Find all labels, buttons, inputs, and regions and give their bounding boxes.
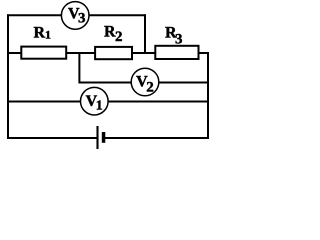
wire left frame [7, 14, 9, 139]
wire bottom frame left of battery [7, 137, 97, 139]
battery cell: long plate [96, 126, 98, 149]
wire main series line [7, 52, 209, 54]
battery cell: short thick plate [102, 132, 106, 143]
wire V2 to right frame [157, 82, 209, 84]
resistor R2 [95, 24, 132, 60]
resistor R3 [155, 25, 198, 59]
wire node R1-R2 down and across to V2 [79, 53, 133, 83]
voltmeter V3 [61, 2, 89, 30]
wire V1 line [7, 101, 209, 103]
svg-text:3: 3 [78, 11, 86, 27]
svg-text:1: 1 [45, 28, 51, 42]
wire top frame [7, 14, 146, 16]
voltmeter V2 [131, 68, 159, 96]
voltmeter V1 [81, 87, 109, 115]
svg-text:R: R [34, 24, 46, 41]
wire bottom frame right of battery [105, 137, 209, 139]
svg-text:1: 1 [96, 99, 103, 114]
wire right frame [207, 52, 209, 139]
wire drop to node between R2 and R3 [144, 14, 146, 54]
svg-text:3: 3 [175, 31, 183, 47]
resistor R1 [21, 24, 66, 58]
svg-text:2: 2 [146, 79, 154, 95]
svg-text:2: 2 [115, 29, 123, 45]
